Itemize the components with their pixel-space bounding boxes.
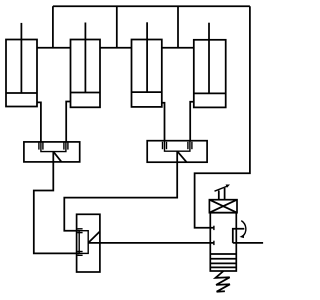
shuttle valve V3 inner chamber xyxy=(79,231,88,254)
wire C1-C2 connector xyxy=(37,47,71,49)
V2 left seat ticks xyxy=(163,142,167,149)
shuttle valve V1 inner chamber xyxy=(41,142,66,152)
wire bus stub right of relief valve xyxy=(233,242,263,244)
wire C3 outlet xyxy=(162,103,165,142)
V2 right seat ticks xyxy=(188,142,192,149)
shuttle valve V1 body xyxy=(24,142,80,162)
RV left port seat tick upper xyxy=(213,226,215,230)
V3 upper seat ticks xyxy=(77,229,82,233)
wire V3 output bus to relief valve xyxy=(88,242,214,244)
wire V1 output to V3 lower inlet xyxy=(34,152,79,254)
cylinder C4 xyxy=(194,23,226,108)
V1 left seat ticks xyxy=(39,142,43,149)
RV return spring xyxy=(215,271,230,292)
wire bus drop to C1-C2 connector xyxy=(52,6,54,48)
V1 right seat ticks xyxy=(64,142,68,149)
V2 poppet diagonal xyxy=(177,151,186,162)
cylinder C3 xyxy=(132,22,162,107)
shuttle valve V2 body xyxy=(147,141,207,163)
RV adjuster lever arrow xyxy=(215,185,231,192)
cylinder C1 xyxy=(6,23,37,107)
RV drain box xyxy=(233,229,245,243)
RV gauge arc xyxy=(241,221,246,237)
RV gauge arc arrowhead xyxy=(240,234,245,238)
RV adjuster posts xyxy=(219,188,225,200)
RV piston stack lines xyxy=(210,254,236,267)
cylinder C2 xyxy=(71,23,101,108)
RV left port seat tick lower xyxy=(213,241,215,245)
relief valve RV solenoid X-box xyxy=(209,200,237,213)
wire bus drop to C2-C3 connector xyxy=(116,6,118,48)
V1 poppet diagonal xyxy=(53,152,61,162)
V3 lower seat ticks xyxy=(77,252,82,256)
wire top supply bus xyxy=(53,5,250,7)
shuttle valve V3 body xyxy=(77,214,100,272)
wire C2 outlet xyxy=(66,102,70,143)
wire C2-C3 connector xyxy=(100,47,132,49)
wire V2 output to V3 upper inlet xyxy=(64,151,177,231)
RV body xyxy=(210,213,236,271)
shuttle valve V2 inner chamber xyxy=(165,141,190,152)
wire C4 outlet xyxy=(190,102,194,142)
wire C1 outlet xyxy=(37,102,41,142)
wire bus drop to C3-C4 connector xyxy=(177,6,179,48)
wire right bus drop to pilot port xyxy=(195,6,250,228)
V3 poppet diagonal xyxy=(88,231,100,243)
wire C3-C4 connector xyxy=(162,47,194,49)
